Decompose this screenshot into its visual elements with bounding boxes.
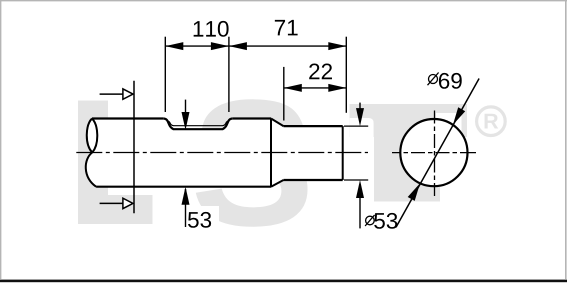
notch outer profile	[164, 118, 233, 129]
arrow at circle upper right	[453, 107, 465, 125]
centerline of shaft	[76, 152, 368, 154]
watermark letter T	[350, 104, 468, 202]
dim line 71	[229, 45, 346, 47]
taper top	[271, 119, 284, 127]
label d53 digits	[374, 213, 397, 229]
open arrow bottom	[100, 198, 133, 208]
arrow 22 left	[284, 84, 302, 92]
label 71	[275, 20, 298, 35]
dim extension line right	[345, 37, 347, 113]
label 53	[188, 212, 211, 228]
label d53 diameter symbol	[365, 215, 375, 226]
arrow 110 right	[211, 42, 229, 50]
white box behind label 53	[183, 206, 219, 233]
white fill of shaft body (covers watermark)	[86, 118, 343, 186]
shoulder vertical line	[270, 119, 272, 187]
extension small top to dim	[344, 125, 368, 127]
label 110	[194, 21, 229, 37]
dim line 110	[165, 45, 229, 47]
label d69 digits	[439, 73, 462, 89]
watermark letter S	[196, 99, 308, 226]
insertion plane vertical line	[133, 81, 135, 214]
watermark white column between part and circle	[350, 118, 374, 205]
circle vertical centerline	[434, 111, 436, 197]
small section top	[284, 125, 343, 127]
dim 53 top arrow	[185, 100, 187, 126]
white fill of end-view circle	[400, 119, 467, 186]
page border right	[565, 0, 567, 279]
bottom black bar	[0, 280, 567, 283]
break lower arc	[86, 153, 96, 187]
label d69 diameter symbol	[428, 73, 439, 86]
arrow 110 left	[165, 42, 183, 50]
arrow 71 right	[328, 42, 346, 50]
dim line 22	[284, 87, 347, 89]
shaft top outline	[92, 117, 271, 119]
dim 110/71 extension line left	[164, 37, 166, 112]
taper bottom	[271, 180, 284, 187]
shaft bottom outline	[96, 186, 271, 188]
watermark white notch on T bar	[436, 113, 462, 138]
white box behind label d53	[356, 205, 400, 232]
small section end face	[342, 126, 344, 180]
label 22	[309, 63, 332, 79]
diagonal diameter leader	[396, 79, 479, 228]
dim 22 extension line left	[283, 67, 285, 121]
dim 53 bottom arrow	[185, 189, 187, 227]
watermark letter L	[78, 101, 153, 225]
dim d53 top arrow	[359, 103, 361, 122]
end view circle	[400, 119, 467, 186]
arrow at circle lower left	[408, 183, 420, 201]
arrow 71 left	[229, 42, 247, 50]
open arrow top	[100, 89, 133, 99]
notch inner line	[167, 120, 230, 125]
watermark group	[78, 99, 505, 226]
arrow 22 right	[328, 84, 346, 92]
dim extension line middle	[228, 37, 230, 112]
break lens left arc	[87, 119, 92, 153]
watermark registered mark	[477, 107, 506, 136]
page border top	[0, 0, 567, 2]
extension small bottom to dim	[344, 179, 368, 181]
circle horizontal centerline	[392, 152, 476, 154]
small section bottom	[284, 179, 343, 181]
dim d53 bottom arrow	[359, 184, 361, 228]
break lens right arc	[92, 119, 97, 153]
page border left	[0, 0, 2, 279]
